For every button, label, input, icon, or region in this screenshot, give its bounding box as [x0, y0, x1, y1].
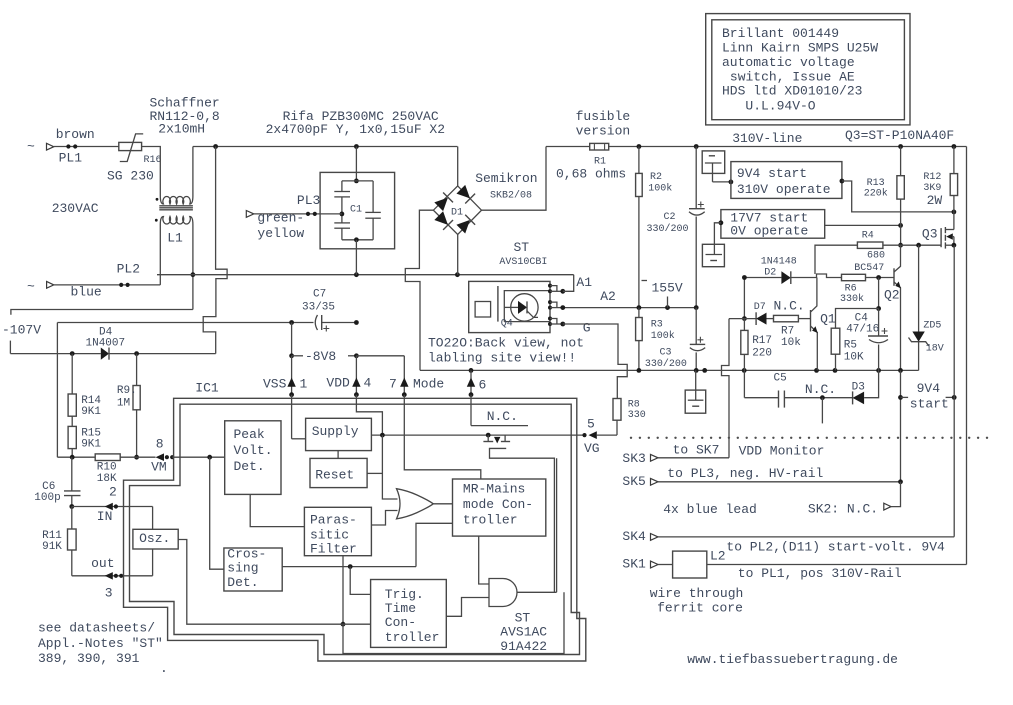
svg-text:R2: R2 — [650, 172, 662, 183]
svg-text:4: 4 — [364, 376, 372, 391]
connector PL3 — [246, 193, 320, 241]
svg-text:blue: blue — [71, 284, 102, 299]
svg-text:R10: R10 — [97, 462, 117, 474]
wire Crossing to Trig input — [350, 567, 370, 595]
svg-text:R7: R7 — [781, 326, 794, 338]
svg-text:Q1: Q1 — [820, 312, 836, 327]
connector SK5 — [622, 466, 902, 489]
svg-text:green-: green- — [257, 211, 304, 226]
block Crossing Det — [224, 547, 282, 592]
svg-text:HDS ltd XD01010/23: HDS ltd XD01010/23 — [722, 84, 862, 99]
svg-text:sitic: sitic — [310, 527, 349, 542]
svg-text:Osz.: Osz. — [139, 531, 170, 546]
block Parasitic Filter — [304, 507, 371, 556]
svg-text:fusible: fusible — [576, 109, 631, 124]
svg-text:3: 3 — [105, 586, 113, 601]
wire Osz output bus — [178, 540, 341, 625]
node A2 line — [563, 289, 699, 310]
svg-text:~: ~ — [27, 279, 35, 294]
wire Crossing output — [282, 523, 452, 569]
wire transformer primary right up to top rail — [192, 147, 194, 197]
svg-text:100k: 100k — [651, 330, 675, 342]
svg-text:G: G — [583, 321, 591, 336]
wire D7 node column to SK7 with jog — [722, 319, 730, 458]
svg-text:230VAC: 230VAC — [52, 201, 99, 216]
svg-text:to PL1, pos 310V-Rail: to PL1, pos 310V-Rail — [738, 566, 902, 581]
svg-text:Brillant 001449: Brillant 001449 — [722, 26, 839, 41]
svg-text:MR-Mains: MR-Mains — [463, 482, 525, 497]
box 9V4 start / 310V operate — [731, 162, 842, 199]
svg-text:Time: Time — [385, 601, 416, 616]
svg-text:330k: 330k — [840, 293, 864, 305]
wire -107V feed — [2, 310, 193, 354]
wire secondary right down to AC2 rail and -107V corner — [191, 225, 196, 310]
capacitor C3 — [645, 308, 705, 371]
node VM rail — [57, 455, 139, 460]
svg-text:47/16: 47/16 — [846, 324, 879, 336]
svg-text:IC1: IC1 — [195, 381, 219, 396]
svg-text:see datasheets/: see datasheets/ — [38, 621, 155, 636]
wire VM to Crossing Det — [210, 457, 224, 569]
node R5 C4 base divider — [836, 278, 881, 329]
svg-text:labling site view!!: labling site view!! — [428, 351, 576, 366]
capacitor C5 line — [744, 370, 852, 423]
label website — [687, 652, 898, 667]
svg-text:330/200: 330/200 — [645, 358, 687, 370]
svg-text:10k: 10k — [781, 337, 801, 349]
wire aux column x216 from top rail to D4 line with jogs — [203, 147, 227, 354]
svg-text:9V4: 9V4 — [917, 381, 941, 396]
svg-text:310V operate: 310V operate — [737, 182, 831, 197]
svg-text:switch, Issue AE: switch, Issue AE — [730, 69, 855, 84]
svg-text:yellow: yellow — [257, 226, 304, 241]
svg-text:R16: R16 — [144, 155, 162, 166]
svg-text:www.tiefbassuebertragung.de: www.tiefbassuebertragung.de — [687, 652, 898, 667]
svg-text:310V-line: 310V-line — [732, 131, 802, 146]
svg-text:.: . — [160, 661, 168, 676]
node NC underline — [471, 409, 528, 425]
label Rifa — [266, 109, 445, 137]
dotted separator — [630, 437, 988, 439]
label Q3 type — [845, 128, 954, 143]
svg-text:Supply: Supply — [312, 424, 359, 439]
wire bridge bottom to AC2 — [457, 234, 459, 274]
svg-text:9K1: 9K1 — [81, 439, 101, 451]
pin 8 VM — [151, 436, 225, 474]
ground box 2 — [702, 244, 724, 266]
svg-text:2x10mH: 2x10mH — [158, 122, 205, 137]
svg-text:PL1: PL1 — [59, 151, 83, 166]
svg-text:ferrit core: ferrit core — [657, 600, 743, 615]
svg-text:R4: R4 — [862, 231, 874, 242]
internal mosfet driver — [483, 435, 554, 592]
pin 3 out line — [72, 556, 153, 601]
wire Supply output gate line — [371, 433, 584, 438]
wire Trig to AND gate — [446, 598, 489, 617]
thyristor module Q4 ST AVS10CBI — [469, 240, 552, 333]
svg-text:BC547: BC547 — [854, 263, 884, 274]
resistor R12 — [923, 147, 957, 212]
svg-text:to PL3, neg. HV-rail: to PL3, neg. HV-rail — [667, 466, 823, 481]
node AC2 rail — [157, 272, 574, 277]
connector SK3 — [622, 442, 729, 466]
zener ZD5 — [909, 245, 944, 370]
svg-text:330: 330 — [628, 410, 646, 421]
pin 4 VDD — [326, 356, 382, 435]
svg-text:8: 8 — [156, 436, 164, 451]
node 155V — [642, 281, 683, 308]
fuse R1 — [546, 109, 630, 181]
resistor R11 — [42, 507, 76, 576]
mosfet Q3 — [922, 212, 956, 249]
svg-text:220k: 220k — [864, 188, 888, 200]
wire transformer secondary left down to PL2 — [159, 225, 161, 285]
svg-text:L1: L1 — [167, 231, 183, 246]
wire Parasitic down to Osz bus — [341, 556, 346, 627]
svg-text:100k: 100k — [648, 182, 672, 194]
pin A1 — [550, 275, 592, 294]
svg-text:automatic voltage: automatic voltage — [722, 55, 855, 70]
svg-text:C3: C3 — [660, 348, 672, 359]
wire G to R8 with jog over rail — [563, 324, 627, 399]
wire 17V7 box left to ground box 2 — [714, 220, 723, 244]
wire 310V rail down right edge — [966, 147, 968, 565]
svg-text:Q2: Q2 — [884, 288, 900, 303]
resistor R8 — [613, 399, 646, 436]
block Trig Time Controller — [371, 580, 447, 648]
svg-text:sing: sing — [227, 561, 258, 576]
svg-text:7: 7 — [389, 377, 397, 392]
svg-text:L2: L2 — [710, 549, 726, 564]
svg-text:to PL2,(D11) start-volt. 9V4: to PL2,(D11) start-volt. 9V4 — [726, 540, 945, 555]
gate AND — [489, 579, 517, 607]
svg-text:N.C.: N.C. — [487, 409, 518, 424]
wire Q3 source column — [953, 245, 955, 537]
IC1 outer boundary — [124, 398, 586, 661]
svg-text:Filter: Filter — [310, 541, 357, 556]
diode D7 — [729, 299, 805, 325]
svg-text:5: 5 — [587, 417, 595, 432]
pin A2 — [550, 302, 565, 310]
svg-text:0V operate: 0V operate — [730, 224, 808, 239]
svg-text:33/35: 33/35 — [302, 302, 335, 314]
svg-text:troller: troller — [463, 513, 518, 528]
svg-text:Con-: Con- — [385, 615, 416, 630]
svg-text:SKB2/08: SKB2/08 — [490, 190, 532, 202]
svg-text:Reset: Reset — [315, 468, 354, 483]
transistor Q1 — [811, 310, 836, 370]
svg-text:100p: 100p — [34, 492, 60, 504]
resistor R3 — [636, 308, 675, 371]
svg-text:ZD5: ZD5 — [923, 320, 941, 331]
svg-text:PL2: PL2 — [117, 262, 140, 277]
box 17V7 start / 0V operate — [721, 210, 825, 239]
transformer L1 — [155, 196, 193, 246]
svg-text:troller: troller — [385, 630, 440, 645]
svg-text:Mode: Mode — [413, 377, 444, 392]
svg-text:VDD Monitor: VDD Monitor — [739, 444, 825, 459]
resistor R13 — [864, 147, 905, 248]
resistor R10 — [95, 454, 155, 485]
wire bridge left to -107V rail — [405, 210, 433, 370]
label wire through ferrit core — [650, 586, 744, 615]
svg-text:9V4 start: 9V4 start — [737, 166, 807, 181]
wire OR to MR box — [433, 503, 452, 505]
svg-text:4x blue lead: 4x blue lead — [663, 502, 757, 517]
svg-text:Q3: Q3 — [922, 227, 938, 242]
wire PL2 — [54, 283, 161, 287]
svg-text:PL3: PL3 — [297, 193, 320, 208]
svg-text:220: 220 — [752, 348, 772, 360]
svg-text:VDD: VDD — [326, 376, 350, 391]
svg-text:SG 230: SG 230 — [107, 168, 154, 183]
svg-text:R13: R13 — [867, 178, 885, 189]
svg-text:Q4: Q4 — [501, 318, 513, 329]
svg-text:Linn Kairn SMPS U25W: Linn Kairn SMPS U25W — [722, 41, 878, 56]
ground box 1 — [702, 151, 725, 182]
svg-text:-107V: -107V — [2, 323, 41, 338]
svg-text:2x4700pF Y, 1x0,15uF X2: 2x4700pF Y, 1x0,15uF X2 — [266, 122, 445, 137]
svg-text:VG: VG — [584, 441, 600, 456]
diode D2 — [744, 257, 841, 285]
svg-text:IN: IN — [97, 509, 113, 524]
svg-text:mode Con-: mode Con- — [463, 497, 533, 512]
svg-text:R12: R12 — [923, 172, 941, 183]
ground box 3 — [685, 370, 706, 413]
wire bottom bus from Osz node — [343, 592, 564, 653]
svg-text:Volt.: Volt. — [234, 443, 273, 458]
svg-text:start: start — [910, 396, 949, 411]
svg-text:A2: A2 — [600, 289, 616, 304]
wire Peak to Parasitic — [250, 494, 304, 526]
resistor R4 — [815, 231, 941, 275]
node -107V rail — [420, 368, 919, 373]
svg-text:330/200: 330/200 — [647, 223, 689, 235]
svg-text:Peak: Peak — [234, 427, 265, 442]
svg-text:SK2: N.C.: SK2: N.C. — [808, 501, 878, 516]
pin 6 — [467, 370, 487, 425]
block Peak Volt Det — [225, 421, 281, 495]
svg-text:version: version — [576, 124, 631, 139]
wire Reset to OR gate — [367, 435, 397, 499]
svg-text:D7: D7 — [754, 302, 766, 313]
resistor R6 — [840, 263, 894, 305]
svg-text:C1: C1 — [350, 205, 362, 216]
transistor Q1 collector wire — [811, 278, 817, 312]
svg-text:N.C.: N.C. — [774, 299, 805, 314]
svg-text:AVS10CBI: AVS10CBI — [499, 257, 547, 268]
IC1 inner boundary — [130, 404, 580, 654]
capacitor C6 — [34, 457, 80, 509]
svg-text:R9.: R9. — [117, 385, 137, 397]
connector PL2 — [27, 262, 140, 300]
node 310V rail — [609, 131, 967, 149]
svg-text:18K: 18K — [97, 473, 117, 485]
svg-text:VSS: VSS — [263, 377, 287, 392]
wire 17V7 box right to R13 column — [825, 223, 903, 228]
svg-text:wire through: wire through — [650, 586, 744, 601]
svg-text:SK4: SK4 — [622, 529, 646, 544]
bridge D1 — [433, 184, 481, 234]
connector SK1 and inductor L2 — [622, 549, 966, 581]
wire PL1 to R16 — [54, 144, 119, 148]
label Semikron — [475, 171, 537, 202]
resistor R7 — [774, 315, 811, 349]
svg-text:D1: D1 — [451, 208, 463, 219]
wire D2 node down to D7 node — [742, 275, 747, 321]
svg-text:SK5: SK5 — [622, 474, 645, 489]
svg-text:to SK7: to SK7 — [673, 442, 720, 457]
label Schaffner — [150, 95, 220, 136]
resistor R15 — [68, 416, 101, 457]
label IC1 — [195, 381, 219, 396]
label VDD Monitor — [739, 444, 825, 459]
svg-text:1N4007: 1N4007 — [86, 338, 126, 350]
svg-text:C7: C7 — [313, 289, 326, 301]
pin 7 Mode — [389, 356, 481, 479]
svg-text:2: 2 — [109, 485, 117, 500]
svg-text:R8: R8 — [628, 400, 640, 411]
label ST AVS1AC — [500, 611, 547, 655]
node 9V4 start — [898, 370, 957, 481]
svg-text:TO22O:Back view, not: TO22O:Back view, not — [428, 336, 584, 351]
svg-text:SK3: SK3 — [622, 451, 645, 466]
capacitor C1 block — [320, 147, 395, 275]
svg-text:ST: ST — [515, 611, 531, 626]
svg-text:U.L.94V-O: U.L.94V-O — [745, 98, 815, 113]
svg-text:VM: VM — [151, 460, 167, 475]
svg-text:Paras-: Paras- — [310, 512, 357, 527]
svg-text:389, 390, 391: 389, 390, 391 — [38, 651, 140, 666]
svg-text:1M: 1M — [117, 398, 130, 410]
label see datasheets — [38, 621, 168, 676]
svg-text:91A422: 91A422 — [500, 639, 547, 654]
svg-text:ST: ST — [514, 240, 530, 255]
svg-text:1N4148: 1N4148 — [761, 257, 797, 268]
svg-text:Det.: Det. — [227, 575, 258, 590]
label 4x blue lead — [663, 502, 757, 517]
pin 5 VG — [582, 417, 617, 456]
title box — [706, 14, 910, 125]
block Supply — [292, 418, 372, 450]
wire R16 to transformer — [142, 147, 161, 197]
capacitor C2 — [647, 147, 705, 308]
svg-text:Trig.: Trig. — [385, 587, 424, 602]
gate OR — [397, 489, 434, 519]
wire ground1 to 9V4 box — [713, 180, 734, 185]
svg-text:680: 680 — [867, 251, 885, 262]
wire MR to AND gate — [479, 536, 489, 584]
svg-text:9K1: 9K1 — [81, 406, 101, 418]
svg-text:C5: C5 — [774, 373, 787, 385]
capacitor C4 — [846, 309, 888, 371]
diode D3 — [852, 370, 879, 404]
svg-text:R5: R5 — [844, 340, 857, 352]
svg-text:91K: 91K — [42, 541, 62, 553]
svg-text:Q3=ST-P10NA40F: Q3=ST-P10NA40F — [845, 128, 954, 143]
svg-text:A1: A1 — [576, 275, 592, 290]
connector PL1 — [27, 127, 95, 166]
block Reset — [310, 451, 367, 488]
transistor Q2 — [884, 245, 901, 370]
svg-text:155V: 155V — [652, 281, 683, 296]
svg-text:R6: R6 — [845, 284, 857, 295]
svg-text:R17: R17 — [752, 335, 772, 347]
resistor R2 — [636, 147, 673, 308]
wire bridge right up to fuse line — [482, 147, 547, 211]
node -8V8 — [289, 323, 404, 365]
oscillator Osz block — [133, 507, 178, 576]
wire AND output — [517, 458, 557, 592]
resistor R9 — [117, 354, 140, 458]
label 230VAC — [52, 201, 99, 216]
svg-text:0,68 ohms: 0,68 ohms — [556, 166, 626, 181]
pin 2 IN line — [72, 485, 153, 525]
svg-text:Det.: Det. — [234, 459, 265, 474]
wire PL3 to C1 — [254, 212, 342, 216]
resistor R17 — [741, 319, 772, 371]
connector SK2 — [808, 482, 901, 517]
svg-text:18V: 18V — [926, 343, 944, 354]
resistor R14 — [68, 354, 101, 418]
svg-text:1: 1 — [300, 377, 308, 392]
svg-text:SK1: SK1 — [622, 556, 646, 571]
svg-text:N.C.: N.C. — [805, 382, 836, 397]
svg-text:D3: D3 — [852, 382, 865, 394]
wire Parasitic to OR gate — [371, 511, 397, 526]
svg-text:10K: 10K — [844, 352, 864, 364]
pin 1 VSS — [263, 356, 308, 439]
svg-text:Cros-: Cros- — [227, 547, 266, 562]
svg-text:C2: C2 — [664, 212, 676, 223]
svg-text:R3: R3 — [651, 320, 663, 331]
svg-text:Appl.-Notes "ST": Appl.-Notes "ST" — [38, 636, 163, 651]
svg-text:6: 6 — [479, 378, 487, 393]
varistor R16 — [107, 134, 162, 183]
connector SK4 — [622, 529, 954, 555]
diode D4 — [10, 327, 215, 360]
pin G — [550, 319, 591, 336]
wire bridge top to rail — [457, 147, 459, 186]
node top rail segment A — [193, 144, 458, 149]
svg-text:-8V8: -8V8 — [305, 349, 336, 364]
wire 9V4 box to R12 bottom node — [840, 179, 957, 215]
resistor R5 — [831, 328, 864, 370]
svg-text:~: ~ — [27, 139, 35, 154]
svg-text:brown: brown — [56, 127, 95, 142]
block MR-Mains mode Controller — [453, 479, 546, 536]
svg-text:out: out — [91, 556, 114, 571]
svg-text:Semikron: Semikron — [475, 171, 537, 186]
capacitor C7 line — [57, 289, 358, 458]
svg-text:2W: 2W — [927, 193, 943, 208]
svg-text:AVS1AC: AVS1AC — [500, 625, 547, 640]
wire Osz bus to Trig Con input — [341, 623, 371, 625]
label TO220 note — [428, 336, 584, 366]
